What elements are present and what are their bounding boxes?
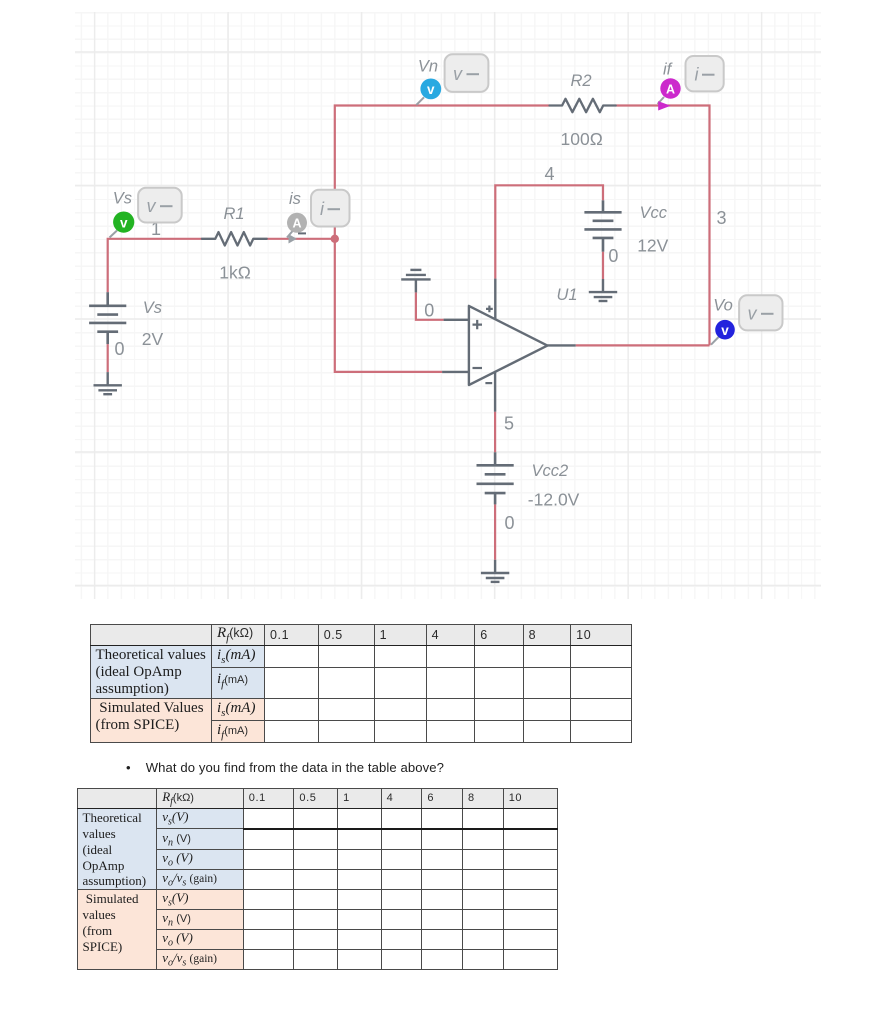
svg-text:0: 0 (608, 246, 618, 266)
svg-text:v: v (453, 64, 463, 84)
inverted ground at non-inverting input (401, 270, 430, 293)
svg-text:Vn: Vn (418, 57, 438, 75)
battery Vs labels (142, 299, 164, 349)
probe Vn (blue voltage probe) (416, 54, 488, 105)
battery Vcc2 -12V (477, 452, 514, 504)
battery Vcc2 labels (528, 462, 580, 510)
wire op-amp V- pin to Vcc2 (494, 412, 496, 453)
svg-text:-12.0V: -12.0V (528, 490, 580, 510)
svg-text:12V: 12V (637, 236, 668, 256)
resistor R1 (202, 232, 267, 245)
svg-text:100Ω: 100Ω (561, 129, 603, 149)
svg-text:R2: R2 (571, 72, 592, 90)
svg-text:3: 3 (717, 208, 727, 228)
probe Vo (dark blue voltage probe) (711, 295, 783, 344)
svg-text:R1: R1 (224, 205, 245, 223)
table 2: voltages vs Rf (77, 788, 558, 970)
table 1: currents vs Rf (90, 624, 632, 743)
svg-text:1kΩ: 1kΩ (219, 262, 251, 282)
battery Vcc labels (637, 204, 668, 255)
svg-text:Vcc: Vcc (640, 204, 668, 222)
svg-text:A: A (666, 82, 675, 96)
op-amp input/power polarity marks (473, 306, 493, 384)
svg-text:Vs: Vs (143, 299, 162, 317)
svg-text:A: A (292, 217, 301, 231)
svg-text:5: 5 (504, 413, 514, 433)
resistor R2 (550, 99, 616, 112)
wire Vcc rail from op-amp V+ pin (495, 185, 603, 278)
svg-text:Vcc2: Vcc2 (532, 462, 569, 480)
svg-text:4: 4 (545, 164, 555, 184)
svg-text:v: v (120, 215, 128, 230)
ground below Vcc (next to U1) (589, 279, 617, 301)
wire R1 to junction node 2 (267, 238, 335, 240)
op-amp U1 (442, 279, 576, 412)
svg-text:v: v (147, 196, 157, 216)
resistor R1 labels (219, 205, 251, 282)
probe is (gray current probe) with arrow (287, 190, 350, 244)
wire junction up to top net (Vn) (335, 106, 550, 239)
svg-text:Vs: Vs (113, 190, 132, 208)
svg-text:2V: 2V (142, 329, 164, 349)
wire Vcc2 minus to ground (494, 504, 496, 559)
svg-text:is: is (289, 190, 301, 208)
wire op-amp output to node 3 (576, 344, 710, 346)
wire ground 0 to non-inverting input (416, 292, 444, 319)
svg-text:v: v (427, 82, 435, 97)
wire Vs battery minus to ground (107, 344, 109, 372)
wire Vcc battery minus to ground (602, 252, 604, 279)
wire junction down and right to inverting input (335, 239, 442, 372)
junction node at R1/R2/op-amp inverting (331, 235, 339, 243)
svg-text:v: v (748, 304, 758, 324)
svg-text:0: 0 (424, 301, 434, 321)
svg-text:Vo: Vo (713, 296, 733, 314)
battery Vs 2V (89, 292, 126, 344)
probe Vs (green voltage probe) (110, 188, 182, 238)
svg-text:v: v (721, 323, 729, 338)
svg-text:0: 0 (505, 513, 515, 533)
wire Vs top node to R1 (108, 239, 202, 292)
svg-text:U1: U1 (557, 286, 578, 304)
schematic grid background (75, 12, 821, 599)
resistor R2 labels (561, 72, 603, 149)
probe if (magenta current probe) with arrow (658, 56, 724, 111)
wire R2 right to top-right corner down to output node (616, 106, 710, 346)
svg-text:0: 0 (115, 339, 125, 359)
svg-text:if: if (663, 60, 674, 78)
ground below Vcc2 (481, 560, 509, 582)
ground below Vs (94, 372, 122, 394)
battery Vcc 12V (584, 200, 621, 251)
